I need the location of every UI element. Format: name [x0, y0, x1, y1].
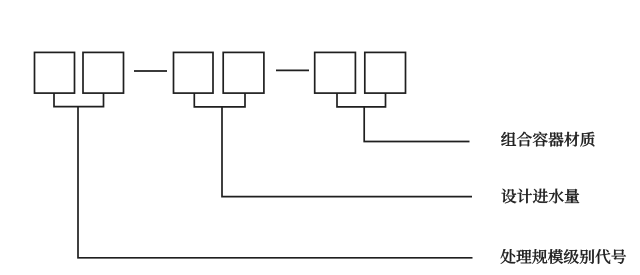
- group 1 leader line to label: [78, 107, 473, 258]
- label "组合容器材质" (combined container material): [501, 132, 594, 147]
- group 3 leader line to label: [364, 107, 469, 142]
- box 4: [223, 52, 264, 93]
- label "处理规模级别代号" (treatment scale class code): [501, 249, 626, 264]
- group 2 bracket (under boxes 3-4): [194, 93, 245, 107]
- connector dash between group 1 and group 2: [134, 70, 167, 72]
- group 3 bracket (under boxes 5-6): [337, 93, 386, 107]
- group 1 bracket (under boxes 1-2): [54, 93, 104, 107]
- label "设计进水量" (design inflow rate): [502, 189, 580, 204]
- box 5: [315, 52, 356, 93]
- group 2 leader line to label: [222, 107, 472, 197]
- box 2: [83, 52, 124, 93]
- box 3: [174, 52, 214, 93]
- box 1: [35, 52, 75, 93]
- connector dash between group 2 and group 3: [276, 69, 309, 71]
- box 6: [365, 52, 406, 93]
